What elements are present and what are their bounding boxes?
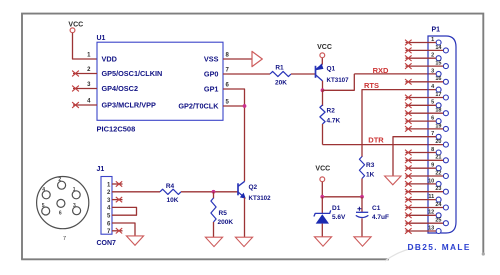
no-connect X U1 pin 2: [72, 71, 79, 77]
no-connect X P1 pin 6: [405, 118, 412, 124]
P1 pin 19: [443, 126, 448, 131]
svg-text:R5: R5: [219, 210, 228, 217]
svg-text:GP4/OSC2: GP4/OSC2: [102, 84, 139, 93]
no-connect X P1 pin 23: [405, 189, 412, 195]
no-connect X P1 pin 17: [405, 95, 412, 101]
P1 pin 18: [443, 111, 448, 116]
svg-text:J1: J1: [97, 166, 105, 173]
svg-text:1: 1: [73, 187, 76, 193]
P1 pin 14: [443, 48, 448, 53]
power port VSS arrow: [252, 51, 262, 66]
no-connect X U1 pin 4: [72, 102, 79, 108]
wire J1 pin 2 to R4: [112, 191, 160, 193]
wire U1 GP1 (pin 6) to Q2 collector: [223, 89, 245, 181]
svg-text:GP2/T0CLK: GP2/T0CLK: [178, 102, 219, 111]
svg-text:GP5/OSC1/CLKIN: GP5/OSC1/CLKIN: [102, 69, 163, 78]
svg-text:6: 6: [59, 211, 62, 217]
svg-text:20K: 20K: [275, 80, 287, 87]
junction GP1/GP2 node: [243, 104, 247, 108]
no-connect X P1 pin 18: [405, 110, 412, 116]
svg-text:4: 4: [42, 187, 45, 193]
zener diode D1 5.6V: [314, 205, 346, 224]
no-connect X P1 pin 2: [405, 55, 412, 61]
svg-text:1K: 1K: [366, 171, 375, 178]
svg-text:2: 2: [58, 177, 61, 183]
wire Q1 collector to R2: [322, 90, 324, 106]
DIN-7 plug face drawing: [37, 177, 89, 243]
svg-text:7: 7: [63, 236, 66, 242]
svg-text:P1: P1: [432, 27, 441, 34]
resistor R2 4.7K: [320, 105, 325, 124]
no-connect X P1 pin 21: [405, 158, 412, 164]
junction R5 node: [212, 190, 216, 194]
ground (P1 pin 7): [385, 176, 401, 185]
U1 pin 3 stub (no connect): [73, 88, 97, 90]
svg-text:GP3/MCLR/VPP: GP3/MCLR/VPP: [102, 101, 156, 110]
P1 pin 12: [436, 213, 441, 218]
wire D1 to ground: [321, 224, 323, 237]
no-connect X P1 pin 10: [405, 181, 412, 187]
P1 pin 25: [443, 221, 448, 226]
IC U1 PIC12C508 body: [97, 42, 223, 120]
no-connect X J1 pin 1: [116, 181, 122, 186]
svg-text:4.7K: 4.7K: [327, 117, 341, 124]
P1 pin 20: [443, 142, 448, 147]
wire DTR line to R3: [361, 145, 363, 157]
P1 pin 11: [436, 197, 441, 202]
J1 pin 7 stub (no connect): [112, 230, 123, 232]
svg-text:C1: C1: [372, 205, 381, 212]
wire net DTR to P1 pin 20: [323, 144, 444, 146]
junction at D1: [320, 195, 324, 199]
power port VCC (top left): [68, 22, 83, 33]
no-connect X P1 pin 14: [405, 48, 412, 54]
resistor R5 200K: [211, 198, 216, 222]
wire J1 pin 6 to ground: [112, 223, 135, 236]
no-connect X P1 pin 11: [405, 197, 412, 203]
no-connect X P1 pin 5: [405, 103, 412, 109]
svg-text:KT3102: KT3102: [249, 195, 272, 202]
svg-text:DTR: DTR: [368, 136, 384, 145]
ground (R5): [205, 237, 222, 246]
P1 pin 17: [443, 95, 448, 100]
svg-text:Q1: Q1: [327, 65, 336, 72]
svg-text:3: 3: [73, 203, 76, 209]
wire R4 to Q2 base: [181, 191, 238, 193]
transistor Q1 KT3107 (PNP): [316, 63, 350, 84]
wire Q1 emitter to VCC: [321, 58, 323, 65]
wire U1 GP0 (pin 7) to R1: [223, 73, 270, 75]
no-connect X P1 pin 12: [405, 213, 412, 219]
svg-text:D1: D1: [332, 205, 341, 212]
no-connect X P1 pin 15: [405, 63, 412, 69]
wire Q2 emitter to ground: [244, 198, 246, 238]
no-connect X P1 pin 1: [405, 40, 412, 46]
P1 pin 13: [436, 229, 441, 234]
wire net RXD to P1 pin 3: [354, 73, 436, 75]
connector J1 CON7 body: [101, 177, 112, 235]
P1 pin 6: [436, 119, 441, 124]
P1 pin 2: [436, 56, 441, 61]
P1 pin 7: [436, 134, 441, 139]
no-connect X J1 pin 3: [116, 197, 122, 202]
svg-text:KT3107: KT3107: [327, 77, 350, 84]
J1 pin 1 stub (no connect): [112, 183, 123, 185]
svg-text:R1: R1: [275, 65, 284, 72]
svg-text:GP0: GP0: [204, 70, 219, 79]
connector P1 DB25 shell: [428, 36, 456, 233]
watermark blob edge bottom-right: [385, 248, 416, 262]
wire node to R5: [213, 192, 215, 199]
P1 pin 5: [436, 103, 441, 108]
no-connect X P1 pin 24: [405, 205, 412, 211]
wire C1 to ground: [361, 218, 363, 236]
wire Q1 collector down: [322, 81, 324, 91]
wire P1 pin 7 to ground: [393, 137, 436, 176]
svg-text:U1: U1: [97, 35, 106, 42]
no-connect X P1 pin 8: [405, 150, 412, 156]
svg-text:VSS: VSS: [204, 55, 219, 64]
svg-text:VCC: VCC: [317, 44, 332, 51]
svg-text:3: 3: [431, 68, 434, 74]
svg-text:200K: 200K: [218, 219, 234, 226]
svg-text:R2: R2: [327, 107, 336, 114]
svg-text:GP1: GP1: [204, 85, 219, 94]
wire loop J1 pin 4 to pin 5: [112, 207, 137, 215]
junction at C1: [360, 195, 364, 199]
wire R2 to DTR line: [322, 124, 324, 145]
no-connect X U1 pin 3: [72, 86, 79, 92]
no-connect X J1 pin 7: [116, 228, 122, 233]
svg-text:10K: 10K: [167, 197, 179, 204]
svg-text:4.7uF: 4.7uF: [372, 214, 389, 221]
P1 pin 10: [436, 181, 441, 186]
P1 pin 21: [443, 158, 448, 163]
wire node to C1: [361, 197, 363, 212]
svg-text:CON7: CON7: [97, 240, 117, 247]
svg-text:20: 20: [435, 139, 441, 145]
no-connect X P1 pin 19: [405, 126, 412, 132]
svg-text:Q2: Q2: [249, 184, 258, 191]
U1 pin 8 stub: [223, 58, 252, 60]
U1 pin 2 stub (no connect): [73, 73, 97, 75]
J1 pin 3 stub (no connect): [112, 199, 123, 201]
capacitor C1 4.7uF: [356, 205, 389, 221]
svg-text:R3: R3: [366, 162, 375, 169]
svg-text:R4: R4: [166, 183, 175, 190]
P1 pin 22: [443, 174, 448, 179]
P1 pin 8: [436, 150, 441, 155]
no-connect X P1 pin 9: [405, 165, 412, 171]
wire VCC to U1 pin 1: [73, 33, 98, 59]
wire net RTS: P1 pin 4 down to DTR line: [362, 90, 436, 145]
no-connect X P1 pin 25: [405, 220, 412, 226]
svg-text:5: 5: [42, 203, 45, 209]
no-connect X P1 pin 22: [405, 173, 412, 179]
svg-text:PIC12C508: PIC12C508: [97, 124, 136, 133]
U1 pin 4 stub (no connect): [73, 104, 97, 106]
svg-text:VCC: VCC: [315, 166, 330, 173]
wire collector node to RXD riser: [323, 74, 355, 90]
wire VCC port to node: [321, 182, 323, 197]
P1 pin 24: [443, 205, 448, 210]
wire R5 to ground: [213, 222, 215, 237]
transistor Q2 KT3102 (NPN): [238, 181, 271, 202]
resistor R3 1K: [359, 157, 364, 179]
svg-text:DB25. MALE: DB25. MALE: [408, 242, 471, 252]
svg-text:VCC: VCC: [68, 22, 83, 29]
ground (Q2): [235, 237, 252, 246]
P1 pin 9: [436, 166, 441, 171]
wire R3 to VCC node: [361, 179, 363, 197]
svg-text:VDD: VDD: [102, 55, 117, 64]
ground (D1): [314, 237, 331, 246]
ground (J1 pin 6): [126, 236, 143, 245]
resistor R1: [270, 71, 291, 76]
svg-text:5.6V: 5.6V: [332, 214, 346, 221]
ground (C1): [354, 237, 371, 246]
resistor R4 10K: [160, 189, 181, 194]
P1 pin 1: [436, 40, 441, 45]
wire U1 GP2 (pin 5) to node: [223, 105, 245, 107]
wire R1 to Q1 base: [291, 73, 316, 75]
no-connect X P1 pin 13: [405, 228, 412, 234]
svg-text:RTS: RTS: [364, 81, 379, 90]
wire node D1 to C1: [322, 196, 362, 198]
P1 pin 16: [443, 79, 448, 84]
no-connect X P1 pin 16: [405, 79, 412, 85]
junction Q1 collector node: [321, 88, 325, 92]
svg-text:RXD: RXD: [373, 66, 389, 75]
wire node to D1: [321, 197, 323, 214]
P1 pin 23: [443, 189, 448, 194]
P1 pin 15: [443, 64, 448, 69]
P1 pin 4: [436, 87, 441, 92]
P1 pin 3: [436, 71, 441, 76]
